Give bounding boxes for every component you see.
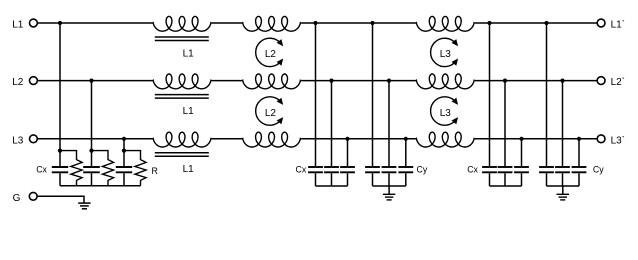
wire Cy right star rail	[547, 185, 580, 187]
wire drop Cy right phase 3	[578, 139, 580, 166]
wire drop Cx mid phase 2	[331, 81, 333, 166]
svg-text:L2: L2	[265, 108, 277, 119]
capacitor Cy right 3	[572, 167, 587, 186]
svg-text:Cy: Cy	[593, 164, 604, 174]
junction Cy right phase 1	[544, 21, 548, 25]
svg-text:Cx: Cx	[467, 164, 478, 174]
wire L1 segment 3	[301, 22, 416, 24]
capacitor Cx right 1	[482, 167, 497, 186]
terminal L3'	[597, 135, 605, 143]
capacitor Cx mid 3	[340, 167, 355, 186]
core of L1 winding b	[155, 95, 209, 99]
ground chassis	[78, 203, 90, 209]
node RC branch 1 top	[58, 149, 62, 153]
terminal L3	[30, 135, 38, 143]
svg-text:G: G	[13, 193, 21, 204]
inductor L3 winding c	[416, 132, 475, 147]
resistor R1	[60, 151, 82, 186]
junction Cx mid phase 1	[313, 21, 317, 25]
wire drop to RC branch 2	[91, 81, 93, 151]
svg-text:L3: L3	[12, 135, 24, 146]
svg-text:Cx: Cx	[296, 164, 307, 174]
wire L2 segment 2	[212, 80, 243, 82]
wire drop Cx right phase 2	[504, 81, 506, 166]
svg-text:Cx: Cx	[36, 165, 47, 175]
ground Cy mid	[383, 186, 395, 200]
wire L3 segment 1	[37, 138, 153, 140]
capacitor Cx2	[83, 151, 100, 186]
terminal L2	[30, 77, 38, 85]
core of L1 winding a	[155, 37, 209, 41]
svg-text:L3`: L3`	[611, 134, 625, 146]
junction on line row3	[122, 137, 126, 141]
junction Cx mid phase 2	[329, 79, 333, 83]
wire L1 segment 4	[475, 22, 597, 24]
terminal L1	[30, 19, 38, 27]
capacitor Cx1	[52, 151, 68, 186]
junction Cx right phase 1	[487, 21, 491, 25]
resistor R3	[124, 151, 146, 186]
resistor R2	[92, 151, 114, 186]
wire drop Cx right phase 3	[521, 139, 523, 166]
winding arrow L3 row2	[431, 97, 459, 125]
wire L1 segment 2	[212, 22, 243, 24]
winding arrow L2 row1	[256, 38, 284, 66]
wire L3 segment 3	[301, 138, 416, 140]
wire Cy mid star rail	[373, 185, 406, 187]
wire drop Cy right phase 2	[562, 81, 564, 166]
wire L3 segment 4	[475, 138, 597, 140]
inductor L3 winding b	[416, 74, 475, 89]
capacitor Cy right 1	[539, 167, 554, 186]
inductor L1 winding c	[153, 132, 212, 147]
wire drop Cy mid phase 3	[405, 139, 407, 166]
inductor L2 winding a	[242, 16, 301, 31]
winding arrow L3 row1	[431, 38, 459, 66]
wire drop Cy right phase 1	[546, 23, 548, 166]
svg-text:L1`: L1`	[611, 19, 625, 31]
wire drop Cy mid phase 2	[388, 81, 390, 166]
junction Cx right phase 2	[503, 79, 507, 83]
wire drop to RC branch 1	[59, 23, 61, 151]
svg-text:Cy: Cy	[417, 164, 428, 174]
core of L1 winding c	[155, 153, 209, 157]
node RC branch 2 top	[89, 149, 93, 153]
junction Cy mid phase 3	[404, 137, 408, 141]
winding arrow L2 row2	[256, 97, 284, 125]
inductor L1 winding a	[153, 16, 212, 31]
terminal L1'	[597, 19, 605, 27]
terminal G	[29, 192, 37, 200]
svg-text:L1: L1	[183, 106, 195, 117]
wire L2 segment 1	[37, 80, 153, 82]
junction Cy right phase 2	[560, 79, 564, 83]
wire L2 segment 3	[301, 80, 416, 82]
wire Cx mid star rail	[316, 185, 348, 187]
inductor L2 winding c	[242, 132, 301, 147]
svg-text:L3: L3	[440, 49, 452, 60]
svg-text:L1: L1	[183, 164, 195, 175]
inductor L1 winding b	[153, 74, 212, 89]
junction on line row1	[58, 21, 62, 25]
junction Cy right phase 3	[577, 137, 581, 141]
wire L1 segment 1	[37, 22, 153, 24]
wire drop Cx mid phase 3	[347, 139, 349, 166]
capacitor Cy mid 3	[398, 167, 413, 186]
inductor L3 winding a	[416, 16, 475, 31]
svg-text:R: R	[152, 166, 158, 176]
wire drop Cy mid phase 1	[372, 23, 374, 166]
wire drop Cx mid phase 1	[315, 23, 317, 166]
capacitor Cx mid 1	[308, 167, 323, 186]
junction Cy mid phase 2	[387, 79, 391, 83]
junction on line row2	[89, 79, 93, 83]
svg-text:L2: L2	[12, 77, 24, 88]
capacitor Cx3	[116, 151, 132, 186]
svg-text:L1: L1	[12, 20, 24, 31]
wire drop to RC branch 3	[123, 139, 125, 151]
ground Cy right	[557, 186, 570, 200]
wire RC star rail	[60, 185, 141, 187]
wire Cx right star rail	[490, 185, 522, 187]
wire L3 segment 2	[212, 138, 243, 140]
terminal L2'	[597, 77, 605, 85]
wire G	[37, 196, 84, 203]
capacitor Cx mid 2	[324, 167, 339, 186]
capacitor Cx right 2	[498, 167, 513, 186]
capacitor Cy mid 2	[382, 167, 397, 186]
wire L2 segment 4	[475, 80, 597, 82]
inductor L2 winding b	[242, 74, 301, 89]
capacitor Cy right 2	[555, 167, 570, 186]
svg-text:L3: L3	[440, 108, 452, 119]
capacitor Cy mid 1	[365, 167, 380, 186]
svg-text:L1: L1	[183, 48, 195, 59]
node RC branch 3 top	[122, 149, 126, 153]
capacitor Cx right 3	[514, 167, 529, 186]
junction Cx right phase 3	[519, 137, 523, 141]
svg-text:L2: L2	[265, 49, 277, 60]
wire drop Cx right phase 1	[489, 23, 491, 166]
svg-text:L2`: L2`	[611, 76, 625, 88]
junction Cy mid phase 1	[370, 21, 374, 25]
junction Cx mid phase 3	[345, 137, 349, 141]
